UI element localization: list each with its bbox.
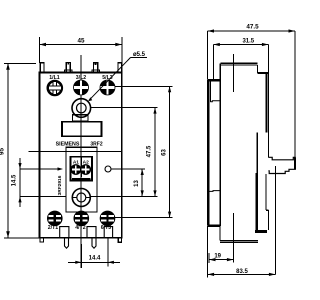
center axis line front view	[80, 55, 82, 268]
dimension 83.5 side bottom	[208, 273, 276, 276]
small circle test point	[105, 166, 111, 172]
svg-text:3RF2: 3RF2	[90, 141, 102, 147]
bottom clamp 1	[60, 227, 69, 238]
central screw circle	[72, 99, 91, 118]
terminal 4/T2	[74, 211, 89, 226]
svg-text:47.5: 47.5	[246, 24, 259, 31]
svg-text:14.4: 14.4	[89, 256, 101, 262]
svg-text:45: 45	[77, 38, 85, 45]
svg-text:1/L1: 1/L1	[49, 75, 59, 81]
terminal 6/T3	[100, 211, 115, 226]
extension line hook front	[274, 166, 276, 274]
side view center axis	[232, 54, 234, 92]
terminal 1/L1	[48, 81, 62, 95]
label plate rectangle	[62, 122, 102, 136]
terminal 5/L3	[100, 80, 114, 94]
svg-text:14.5: 14.5	[12, 174, 18, 186]
dimension 95 left	[4, 63, 40, 238]
bottom central screw circle	[72, 189, 90, 207]
bottom tab 1	[65, 238, 69, 248]
A1/A2 control terminal block	[71, 157, 92, 181]
svg-text:19: 19	[214, 254, 221, 260]
top mounting tab 3	[94, 63, 98, 73]
top mounting tab 4	[118, 63, 122, 73]
top mounting tab 2	[66, 62, 70, 72]
svg-text:95: 95	[0, 148, 6, 156]
svg-text:31.5: 31.5	[242, 39, 254, 45]
svg-text:63: 63	[161, 149, 167, 156]
svg-text:3/L2: 3/L2	[76, 75, 86, 81]
svg-text:47.5: 47.5	[147, 145, 153, 157]
svg-text:A2: A2	[83, 159, 89, 165]
svg-text:83.5: 83.5	[236, 269, 248, 275]
svg-text:A1: A1	[73, 159, 79, 165]
terminal 3/L2	[74, 80, 88, 94]
side view body outline	[220, 45, 269, 243]
dimension 14.4 bottom	[68, 238, 120, 268]
subpanel rectangle	[66, 147, 97, 212]
bottom tab 2	[92, 238, 96, 248]
dimension 13 right	[91, 169, 158, 196]
svg-text:3RF2916: 3RF2916	[57, 175, 63, 195]
svg-text:SIEMENS: SIEMENS	[56, 142, 80, 148]
seam line across device	[29, 151, 122, 153]
dimension 19 side bottom	[209, 253, 233, 263]
bottom left corner foot	[40, 238, 44, 242]
top mounting tab 1	[40, 63, 44, 73]
dimension 31.5 side	[213, 43, 268, 80]
side view mounting plate	[207, 80, 220, 226]
terminal 2/T1	[48, 211, 63, 226]
svg-text:13: 13	[134, 180, 140, 187]
side view lower terminal block	[266, 174, 269, 230]
svg-text:2/T1: 2/T1	[48, 225, 58, 231]
bottom clamp 3	[104, 227, 112, 238]
svg-text:ø5.5: ø5.5	[133, 52, 146, 58]
dimension 45 top	[40, 37, 122, 63]
svg-text:5/L3: 5/L3	[102, 75, 112, 81]
side view foot block	[255, 230, 267, 233]
extension line plate left lower	[207, 226, 209, 278]
leader ø5.5	[88, 58, 147, 102]
bottom tab 3	[118, 238, 121, 242]
bottom clamp 2	[87, 227, 96, 238]
svg-text:4/T2: 4/T2	[75, 225, 85, 231]
device outline front view	[40, 73, 122, 238]
neck rectangle	[73, 115, 89, 122]
dimension 14.5 left	[18, 158, 65, 207]
dimension 63 right	[115, 86, 173, 217]
dimension 47.5 side top	[208, 29, 296, 157]
svg-text:6/T3: 6/T3	[101, 225, 111, 231]
side view terminal hook	[268, 157, 295, 173]
dimension 47.5 right	[91, 108, 158, 197]
